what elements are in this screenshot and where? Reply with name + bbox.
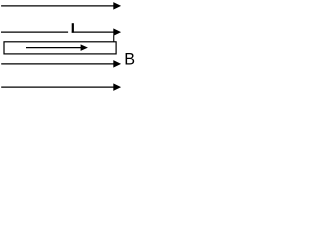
current label I: [72, 23, 74, 33]
field line arrow 1 (top) wire: [1, 5, 114, 7]
field line arrow 2 wire left segment: [1, 31, 68, 33]
field line arrow 4 head: [113, 83, 121, 91]
conductor bar rectangle: [4, 42, 116, 54]
field line arrow 4 (bottom) wire: [1, 86, 114, 88]
field line arrow 2 head: [113, 28, 121, 35]
stray vertical tick below arrow 2 head: [113, 36, 114, 42]
svg-text:B: B: [124, 51, 135, 69]
internal current arrow head: [81, 44, 88, 51]
background: [0, 0, 137, 97]
internal current arrow wire: [26, 47, 81, 49]
field line arrow 2 wire right segment: [72, 31, 114, 33]
field line arrow 1 head: [113, 2, 121, 9]
field line arrow 3 head: [113, 60, 121, 68]
field line arrow 3 wire: [1, 63, 114, 65]
